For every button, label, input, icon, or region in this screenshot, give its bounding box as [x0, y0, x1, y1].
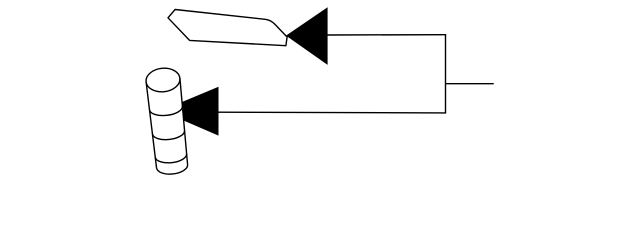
- leader line L1 (top horizontal from arrow A1 to vertical): [327, 34, 447, 36]
- blade part (white-filled outlined polygon, drawn over arrow tip): [168, 10, 287, 46]
- cylinder right side: [179, 78, 189, 164]
- arrow A2 (solid black arrowhead pointing left at cylinder): [161, 87, 219, 136]
- stub line to the right: [446, 83, 494, 85]
- cylinder band 2: [152, 131, 185, 142]
- cylinder top ellipse: [145, 67, 181, 94]
- leader line L2 (bottom horizontal from arrow A2 to vertical): [218, 111, 447, 114]
- vertical connector line: [445, 34, 447, 113]
- cylinder bottom arc: [157, 165, 189, 176]
- cylinder part (tilted segmented cylinder, drawn over arrow tip): [145, 67, 190, 176]
- cylinder band 1: [150, 106, 184, 117]
- cylinder band 3: [155, 154, 187, 165]
- cylinder body fill: [146, 78, 190, 176]
- arrow A1 (solid black arrowhead pointing left at blade): [286, 7, 328, 65]
- cylinder left side: [146, 82, 156, 168]
